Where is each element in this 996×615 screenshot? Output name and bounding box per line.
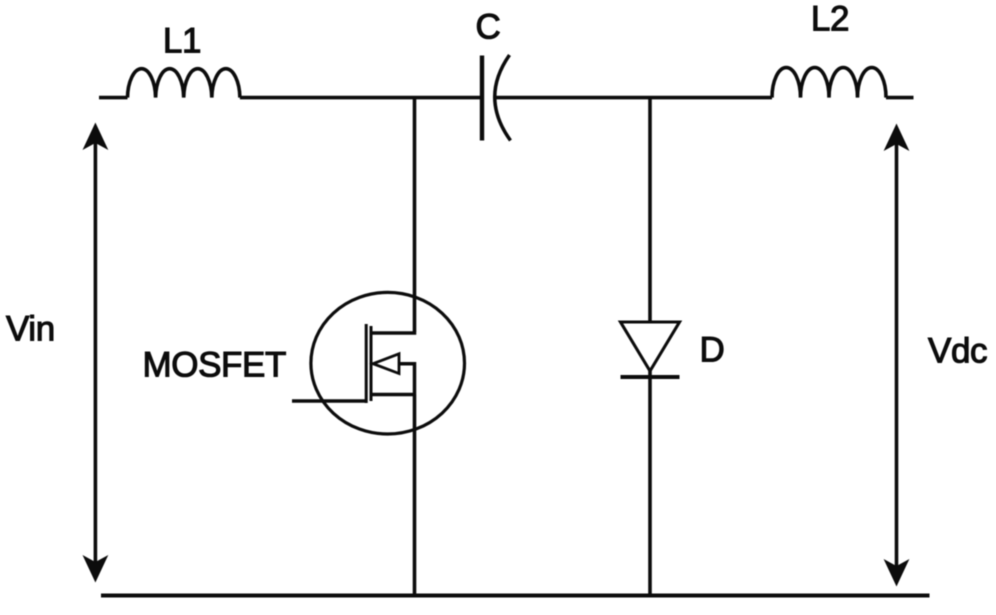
- wire: top segment from L1 to capacitor C: [240, 96, 481, 100]
- MOSFET gate bar: [365, 324, 368, 403]
- transistor Q1 MOSFET: [292, 292, 465, 434]
- Vin measurement arrow (double-headed): [83, 123, 109, 583]
- svg-text:D: D: [700, 331, 725, 370]
- wire: top-right lead from L2 to output: [886, 96, 914, 100]
- wire: MOSFET source down to bottom rail: [413, 395, 417, 596]
- wire: bottom rail: [101, 594, 930, 598]
- MOSFET source lead: [371, 393, 415, 397]
- diode D cathode bar: [621, 375, 680, 379]
- svg-text:Vdc: Vdc: [928, 332, 987, 371]
- capacitor C left plate: [480, 56, 484, 141]
- MOSFET drain lead: [371, 331, 415, 333]
- svg-text:L2: L2: [811, 0, 849, 39]
- MOSFET body lead: [399, 364, 415, 395]
- svg-text:MOSFET: MOSFET: [143, 346, 286, 385]
- wire: diode down to bottom rail: [648, 371, 652, 596]
- MOSFET body circle: [311, 292, 465, 434]
- capacitor C right curved plate: [495, 55, 511, 141]
- svg-text:L1: L1: [163, 22, 201, 61]
- diode D triangle: [621, 322, 680, 371]
- diode D: [621, 322, 680, 377]
- MOSFET channel bar: [370, 326, 373, 401]
- wire: top segment from C to L2: [496, 96, 773, 100]
- Vdc measurement arrow (double-headed): [884, 124, 910, 587]
- capacitor C: [482, 55, 511, 141]
- wire: top-left lead from input to L1: [99, 96, 128, 100]
- wire: MOSFET drain branch from top wire: [413, 98, 417, 332]
- svg-text:C: C: [476, 8, 501, 47]
- svg-text:Vin: Vin: [6, 310, 55, 349]
- MOSFET gate lead: [292, 399, 366, 403]
- inductor L2: [772, 68, 886, 98]
- inductor L1: [128, 69, 240, 98]
- wire: diode branch from top wire down to diode: [648, 98, 652, 322]
- MOSFET body arrow: [373, 354, 399, 374]
